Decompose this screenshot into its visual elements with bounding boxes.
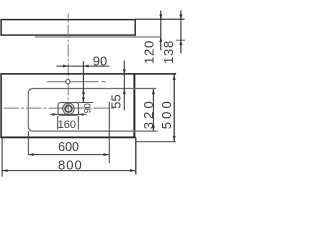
tap hole centerline (horizontal) [47, 81, 99, 83]
dimension 500 line [173, 75, 176, 142]
dimension 800 line [2, 169, 135, 172]
wire: gray shadow line under side view [35, 36, 161, 38]
dimension 138 line [179, 11, 182, 54]
extension for 800 below right [135, 137, 137, 174]
svg-text:800: 800 [58, 158, 83, 173]
dimension 160 line [50, 113, 86, 116]
basin side view (top elevation rectangle) [1, 20, 135, 35]
drain top extension line right [79, 102, 94, 104]
dimension 600 line [28, 153, 108, 156]
svg-text:90: 90 [93, 54, 107, 69]
svg-text:600: 600 [58, 140, 79, 154]
svg-text:138: 138 [161, 40, 176, 64]
gray rear/bottom line right portion [136, 141, 176, 143]
vertical centerline through tap/drain [67, 13, 69, 116]
svg-text:55: 55 [108, 94, 123, 108]
horizontal centerline through drain [4, 107, 117, 109]
plan view left edge [0, 73, 2, 138]
svg-text:320: 320 [141, 98, 156, 129]
drain inner ring [65, 105, 72, 112]
drain recess rectangle [58, 103, 78, 116]
dimension 90 (vertical, drain) [82, 61, 85, 102]
svg-text:120: 120 [141, 40, 156, 64]
extension line 800 left [1, 138, 3, 177]
wire: gray 138 lower extension segment right [176, 39, 185, 41]
extension line 600 right [108, 102, 110, 163]
basin right edge (thick, plan) [133, 74, 135, 137]
dimension 90 (top, tap hole offset) [57, 65, 110, 68]
plan view top edge [1, 73, 176, 75]
dimension 55 line [123, 61, 126, 111]
extension line 600 left (bowl edge continue) [27, 131, 29, 155]
dimension 120 line [159, 11, 162, 51]
wire: top surface extension line to right edge [135, 18, 185, 20]
plan view bottom edge (black) [0, 136, 135, 138]
drain outer circle [63, 103, 74, 114]
extension bars for 160 [57, 116, 59, 129]
svg-text:90: 90 [83, 103, 93, 113]
bowl inner outline (rounded, extends as 320 extension lines) [28, 89, 157, 132]
dimension 320 line [152, 89, 155, 131]
svg-text:160: 160 [58, 119, 76, 131]
tap hole circle [66, 80, 70, 84]
svg-text:500: 500 [159, 98, 174, 129]
